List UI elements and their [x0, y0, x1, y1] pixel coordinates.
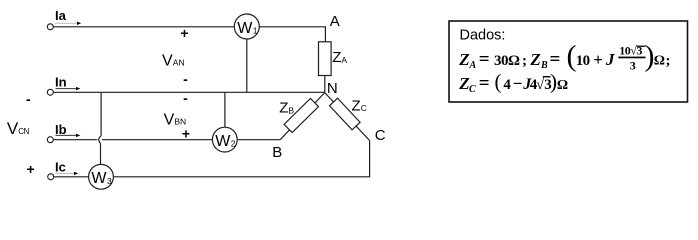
wire W1 stem — [246, 39, 248, 92]
svg-text:B: B — [540, 60, 548, 71]
svg-text:(: ( — [495, 69, 502, 93]
svg-text:V: V — [164, 112, 175, 129]
equation ZB value — [529, 40, 670, 73]
svg-text:Z: Z — [529, 50, 540, 69]
resistor ZC — [330, 98, 361, 130]
arrow Ia — [55, 22, 78, 24]
wire Za top lead — [324, 76, 326, 93]
svg-text:A: A — [341, 55, 347, 65]
svg-text:1: 1 — [253, 26, 258, 36]
svg-text:+: + — [593, 50, 603, 69]
svg-text:Ia: Ia — [55, 8, 67, 23]
wire Ic row / bottom — [54, 141, 370, 177]
svg-text:+: + — [182, 125, 190, 141]
svg-text:In: In — [55, 74, 67, 89]
svg-text:-: - — [26, 91, 31, 107]
svg-text:3: 3 — [630, 58, 636, 72]
svg-text:Z: Z — [352, 97, 361, 114]
svg-text:Z: Z — [332, 49, 341, 66]
svg-text:V: V — [162, 52, 173, 69]
svg-text:3: 3 — [107, 176, 112, 186]
svg-text:W: W — [215, 133, 231, 150]
svg-text:N: N — [327, 80, 338, 97]
resistor ZA — [319, 42, 332, 76]
arrow In — [56, 88, 77, 90]
svg-text:V: V — [7, 119, 19, 138]
wire Ib row — [53, 139, 280, 141]
wire In row — [53, 91, 324, 93]
svg-text:CN: CN — [18, 127, 29, 136]
svg-text:Z: Z — [279, 100, 288, 117]
svg-text:A: A — [330, 13, 340, 30]
svg-text:30Ω: 30Ω — [494, 53, 520, 69]
wattmeter W2 — [212, 127, 237, 152]
svg-text:W: W — [237, 20, 253, 37]
svg-text:4: 4 — [503, 77, 511, 93]
terminal Ib — [47, 137, 53, 143]
svg-text:Dados:: Dados: — [460, 28, 506, 44]
wire hop over Ib — [99, 136, 101, 144]
svg-text:J: J — [605, 50, 615, 69]
svg-text:=: = — [479, 49, 490, 70]
wire Zb diagonal — [280, 93, 325, 140]
data box — [449, 21, 688, 102]
svg-text:10√3: 10√3 — [619, 43, 642, 57]
svg-text:C: C — [469, 84, 476, 95]
wire W3 stem lower — [100, 143, 102, 164]
svg-text:A: A — [469, 60, 477, 71]
terminal In — [47, 89, 53, 95]
svg-text:;: ; — [666, 53, 671, 69]
svg-text:Ω: Ω — [557, 78, 568, 93]
wire W3 stem — [100, 92, 102, 135]
equation ZA value — [458, 49, 527, 71]
svg-text:+: + — [27, 161, 35, 177]
svg-text:-: - — [183, 90, 188, 106]
svg-text:10: 10 — [576, 53, 590, 69]
svg-text:Ib: Ib — [55, 122, 67, 137]
svg-text:C: C — [361, 103, 367, 113]
svg-text:=: = — [479, 73, 490, 94]
svg-text:-: - — [183, 71, 188, 87]
wattmeter W1 — [234, 14, 259, 39]
svg-text:Ic: Ic — [55, 160, 66, 175]
terminal Ic — [48, 174, 54, 180]
wire W2 stem — [224, 92, 226, 127]
svg-text:Z: Z — [458, 50, 469, 69]
svg-text:−: − — [513, 74, 523, 93]
wire Zc diagonal — [325, 93, 370, 141]
arrow Ib — [56, 134, 77, 136]
wire Ia row — [53, 27, 325, 42]
svg-text:=: = — [550, 49, 561, 70]
arrow Ic — [55, 172, 74, 174]
svg-text:+: + — [180, 25, 188, 41]
svg-text:W: W — [91, 170, 107, 187]
equation ZC value — [458, 69, 568, 95]
svg-text:AN: AN — [173, 57, 185, 67]
svg-text:Ω: Ω — [654, 53, 665, 68]
svg-text:C: C — [375, 127, 386, 144]
svg-text:2: 2 — [231, 139, 236, 149]
wattmeter W3 — [89, 164, 114, 189]
terminal Ia — [47, 24, 53, 30]
resistor ZB — [284, 98, 318, 132]
svg-text:B: B — [288, 105, 294, 115]
svg-text:B: B — [272, 144, 282, 161]
svg-text:;: ; — [522, 53, 527, 69]
svg-text:Z: Z — [458, 74, 469, 93]
